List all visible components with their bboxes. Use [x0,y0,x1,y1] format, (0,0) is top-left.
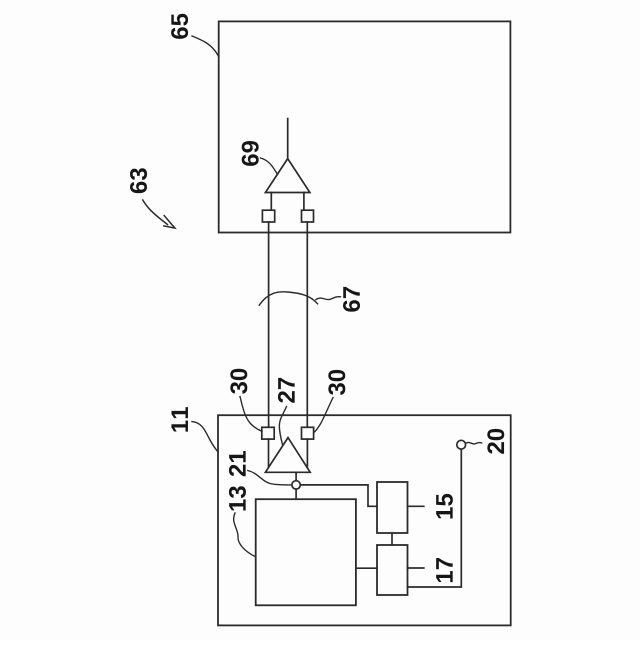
connector box 15 to box 17 [391,533,393,545]
op-amp 27 (receiver triangle) [265,438,310,473]
stub left pad 30 to amp 27 [268,439,270,466]
label 17 [436,558,453,582]
leader 13 [234,513,256,557]
leader 30 right [314,398,333,433]
wire left line of pair 67 [268,222,270,427]
box 15 [377,482,408,533]
box 17 [377,545,408,595]
pad 30 lower-right square [302,427,314,439]
wire node 21 to box 15 [300,485,377,506]
box 13 [256,499,356,605]
squiggle leader 20 [466,442,482,444]
label 20 [487,429,504,454]
label 11 [171,407,188,432]
box 65 (upper device) [219,21,511,232]
leader 27 [279,407,286,446]
label 30 left [230,369,247,394]
label 15 [436,494,453,519]
squiggle 67 [316,297,341,300]
stub amp 69 base to right pad [303,193,305,211]
leader 30 left [240,397,262,432]
wire amp 27 output to node 21 [295,472,297,480]
leader 65 [192,36,218,56]
leader 11 [192,422,218,453]
wire right line of pair 67 [306,222,308,427]
label 63 [130,168,147,193]
op-amp 69 (driver triangle) [265,159,310,193]
label 27 [278,378,295,403]
label 65 [171,14,188,39]
brace 67 [259,292,317,305]
label 30 right [328,370,345,395]
stub box 17 right [408,567,424,569]
label 69 [242,141,259,166]
leader 69 [261,158,278,175]
wire node 21 to box 13 [295,489,297,499]
pad upper-left square [262,210,274,222]
label 67 [343,287,360,312]
box 11 (lower device) [218,415,511,625]
node 21 junction circle [292,481,300,489]
arrow 63 [143,200,175,228]
wire box 17 to terminal 20 [408,449,462,587]
label 21 [229,451,246,476]
label 13 [229,486,246,510]
wire from amp 69 apex up [287,119,289,159]
stub right pad 30 to amp 27 [306,439,308,466]
terminal 20 circle [457,440,466,449]
pad 30 lower-left square [262,427,274,439]
leader 21 [248,471,292,485]
stub amp 69 base to left pad [270,193,272,211]
pad upper-right square [302,210,314,222]
stub box 15 right [408,505,424,507]
wire box 13 to box 17 [356,567,377,569]
